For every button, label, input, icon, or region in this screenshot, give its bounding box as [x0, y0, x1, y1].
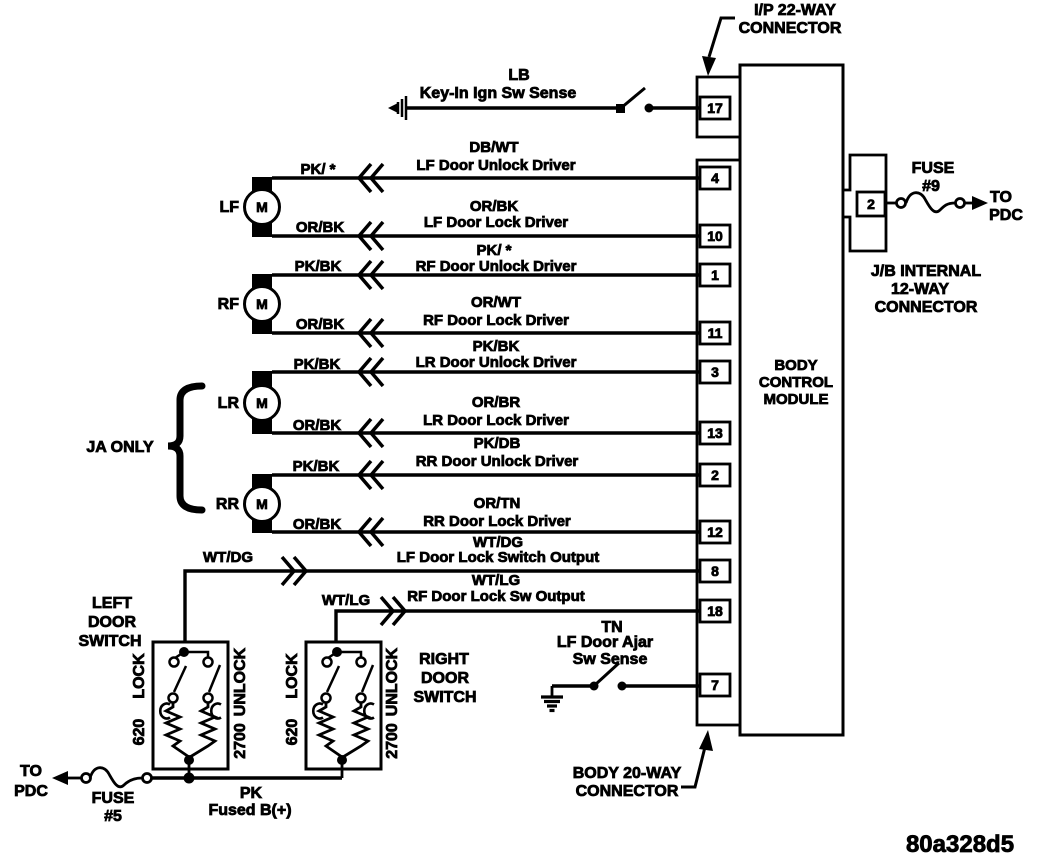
svg-text:PK/BK: PK/BK [294, 356, 341, 373]
svg-text:LR: LR [218, 395, 240, 412]
wire name row9 [397, 534, 600, 566]
svg-text:M: M [256, 199, 268, 215]
svg-text:WT/LG: WT/LG [472, 572, 520, 589]
chevron row 7 [359, 461, 383, 489]
wire name row2 [424, 198, 568, 231]
svg-text:BODY 20-WAY: BODY 20-WAY [573, 765, 682, 782]
chevron row 1 [359, 164, 383, 192]
svg-text:620: 620 [284, 719, 301, 746]
motor M2 RF [245, 274, 280, 334]
svg-text:PK/ *: PK/ * [476, 242, 511, 259]
off-page symbol LB wire [388, 96, 406, 120]
svg-text:JA ONLY: JA ONLY [86, 439, 154, 456]
pin 11 [700, 322, 730, 344]
J/B INTERNAL 12-WAY CONNECTOR label [871, 263, 981, 316]
svg-text:PK/BK: PK/BK [295, 258, 342, 275]
J/B internal connector block [843, 155, 886, 251]
svg-text:PDC: PDC [989, 207, 1023, 224]
motor M1 LF [245, 177, 280, 237]
pin 2 J/B [857, 192, 885, 216]
svg-text:LF: LF [219, 199, 239, 216]
svg-text:CONNECTOR: CONNECTOR [739, 20, 842, 37]
wire row 8 RR lock [272, 530, 700, 533]
pin 1 [700, 264, 730, 286]
wire row 4 RF lock [272, 331, 700, 334]
svg-text:10: 10 [707, 228, 723, 244]
svg-text:TO: TO [990, 189, 1012, 206]
svg-text:BODY: BODY [774, 357, 817, 374]
svg-text:13: 13 [707, 425, 723, 441]
svg-text:Key-In Ign Sw Sense: Key-In Ign Sw Sense [420, 85, 577, 102]
svg-text:J/B INTERNAL: J/B INTERNAL [871, 263, 981, 280]
svg-text:7: 7 [711, 677, 719, 693]
key-in ign switch S1 [616, 88, 700, 113]
svg-text:M: M [256, 395, 268, 411]
wire row 2 LF lock [272, 234, 700, 237]
TN LF Door Ajar Sw Sense label [557, 619, 653, 668]
wire name row7 [416, 435, 579, 470]
svg-text:LF Door Lock Switch Output: LF Door Lock Switch Output [397, 549, 600, 566]
chevron row 10 (right) [381, 597, 405, 625]
svg-text:12: 12 [707, 524, 723, 540]
wire row 9 LF door lock switch output [185, 571, 700, 654]
fuse F5 [52, 768, 152, 787]
LB label [420, 67, 577, 102]
svg-text:80a328d5: 80a328d5 [906, 831, 1014, 858]
pin 18 [700, 600, 730, 622]
wire ground to ajar switch [552, 684, 592, 687]
svg-text:PK/ *: PK/ * [300, 161, 335, 178]
wire row 6 LR lock [272, 431, 700, 434]
svg-text:1: 1 [711, 267, 719, 283]
svg-text:I/P 22-WAY: I/P 22-WAY [754, 2, 836, 19]
svg-text:17: 17 [707, 100, 723, 116]
wire row 1 LF unlock [272, 176, 700, 179]
pin 12 [700, 521, 730, 543]
svg-text:LEFT: LEFT [92, 595, 132, 612]
BODY 20-WAY CONNECTOR label [573, 765, 682, 800]
chevron row 5 [359, 358, 383, 386]
svg-text:OR/WT: OR/WT [471, 294, 521, 311]
RIGHT DOOR SWITCH label [413, 651, 476, 706]
svg-text:TO: TO [20, 763, 42, 780]
svg-text:LF Door Ajar: LF Door Ajar [557, 634, 653, 651]
chevron row 8 [359, 518, 383, 546]
svg-text:LF Door Lock Driver: LF Door Lock Driver [424, 214, 568, 231]
chevron row 6 [359, 419, 383, 447]
svg-text:FUSE: FUSE [92, 790, 135, 807]
pin 17 [700, 97, 730, 119]
I/P 22-way connector block (pin 17) [697, 77, 740, 137]
chevron row 2 [359, 222, 383, 250]
leader arrow to body connector [681, 730, 713, 787]
svg-text:WT/LG: WT/LG [322, 592, 370, 609]
bus junction dot [184, 773, 195, 784]
svg-text:OR/TN: OR/TN [474, 495, 521, 512]
svg-text:WT/DG: WT/DG [203, 549, 253, 566]
pin 10 [700, 225, 730, 247]
svg-text:3: 3 [711, 364, 719, 380]
wire name row6 [423, 394, 569, 429]
svg-text:LF Door Unlock Driver: LF Door Unlock Driver [416, 157, 575, 174]
pin 8 [700, 560, 730, 582]
wire name row8 [423, 495, 571, 530]
PK fused B+ bus wire [151, 776, 342, 779]
wire row 5 LR unlock [272, 370, 700, 373]
pin 2 [700, 464, 730, 486]
wire row 3 RF unlock [272, 273, 700, 276]
svg-text:M: M [256, 296, 268, 312]
svg-text:LR Door Lock Driver: LR Door Lock Driver [423, 412, 569, 429]
right door switch box [306, 642, 381, 769]
chevron row 3 [359, 261, 383, 289]
svg-text:FUSE: FUSE [912, 160, 955, 177]
wire name row4 [423, 294, 569, 329]
svg-text:PK/BK: PK/BK [473, 338, 520, 355]
svg-text:12-WAY: 12-WAY [891, 281, 949, 298]
svg-text:RF Door Lock Sw Output: RF Door Lock Sw Output [407, 588, 585, 605]
svg-text:11: 11 [708, 325, 723, 341]
svg-text:620: 620 [131, 719, 148, 746]
svg-text:2700: 2700 [384, 723, 401, 759]
LEFT DOOR SWITCH label [78, 595, 141, 650]
svg-text:OR/BK: OR/BK [293, 516, 342, 533]
svg-text:OR/BK: OR/BK [296, 316, 345, 333]
TO PDC label bottom left [14, 763, 48, 800]
svg-text:SWITCH: SWITCH [78, 633, 141, 650]
svg-text:2: 2 [711, 467, 719, 483]
svg-text:DB/WT: DB/WT [469, 139, 518, 156]
svg-text:DOOR: DOOR [88, 614, 136, 631]
svg-text:RR: RR [216, 496, 240, 513]
motor M3 LR [245, 371, 280, 434]
svg-text:RR Door Unlock Driver: RR Door Unlock Driver [416, 453, 579, 470]
svg-text:RF: RF [218, 296, 240, 313]
svg-text:8: 8 [711, 563, 719, 579]
chevron row 9 (right) [282, 557, 306, 585]
I/P 22-WAY CONNECTOR label [739, 2, 842, 37]
FUSE #9 label [912, 160, 955, 195]
svg-text:PK/DB: PK/DB [474, 435, 521, 452]
motor M4 RR [245, 474, 280, 533]
svg-text:#9: #9 [922, 178, 940, 195]
svg-text:OR/BK: OR/BK [470, 198, 519, 215]
wire ajar switch to pin 7 [624, 684, 700, 687]
svg-text:Sw Sense: Sw Sense [573, 651, 648, 668]
svg-text:OR/BR: OR/BR [472, 394, 521, 411]
FUSE #5 label [92, 790, 135, 825]
svg-text:PDC: PDC [14, 783, 48, 800]
wire LB key-in to pin 17 [405, 106, 617, 109]
svg-text:4: 4 [711, 170, 719, 186]
svg-text:RIGHT: RIGHT [419, 651, 469, 668]
left door switch internals [160, 647, 221, 778]
fuse F9 [885, 193, 988, 212]
svg-text:RF Door Unlock Driver: RF Door Unlock Driver [416, 258, 577, 275]
svg-text:LOCK: LOCK [284, 653, 301, 699]
svg-text:UNLOCK: UNLOCK [384, 647, 401, 716]
pin 7 [700, 674, 730, 696]
pin 3 [700, 361, 730, 383]
svg-text:CONTROL: CONTROL [759, 374, 833, 391]
svg-text:OR/BK: OR/BK [296, 219, 345, 236]
chevron row 4 [359, 319, 383, 347]
svg-text:2: 2 [867, 196, 875, 212]
TO PDC label top right [989, 189, 1023, 224]
body control module U1 box [740, 65, 843, 735]
svg-text:Fused B(+): Fused B(+) [208, 802, 291, 819]
wire row 7 RR unlock [272, 473, 700, 476]
svg-text:RF Door Lock Driver: RF Door Lock Driver [423, 312, 569, 329]
leader arrow to I/P connector [702, 18, 735, 76]
pin 4 [700, 167, 730, 189]
svg-text:CONNECTOR: CONNECTOR [576, 783, 679, 800]
body control module label [759, 357, 833, 408]
door ajar switch S2 [590, 663, 627, 691]
left door switch box [153, 642, 228, 769]
svg-text:PK: PK [240, 785, 263, 802]
svg-text:SWITCH: SWITCH [413, 689, 476, 706]
svg-text:CONNECTOR: CONNECTOR [875, 299, 978, 316]
svg-text:OR/BK: OR/BK [293, 417, 342, 434]
svg-text:M: M [256, 496, 268, 512]
svg-text:#5: #5 [104, 808, 122, 825]
JA ONLY brace [168, 386, 202, 510]
svg-text:18: 18 [707, 603, 723, 619]
wire name row5 [416, 338, 577, 371]
wire row 10 RF door lock sw output [336, 611, 700, 654]
svg-text:UNLOCK: UNLOCK [232, 647, 249, 716]
wire name row3 [416, 242, 577, 275]
PK Fused B(+) label [208, 785, 291, 819]
svg-text:LOCK: LOCK [131, 653, 148, 699]
svg-text:LR Door Unlock Driver: LR Door Unlock Driver [416, 354, 577, 371]
svg-text:RR Door Lock Driver: RR Door Lock Driver [423, 513, 571, 530]
ground G1 [541, 686, 563, 711]
pin 13 [700, 422, 730, 444]
svg-text:MODULE: MODULE [764, 391, 829, 408]
wire name row1 [416, 139, 575, 174]
body 20-way connector strip [697, 160, 740, 725]
right door switch internals [313, 647, 374, 778]
svg-text:LB: LB [508, 67, 529, 84]
svg-text:2700: 2700 [232, 723, 249, 759]
wire name row10 [407, 572, 585, 605]
svg-text:PK/BK: PK/BK [293, 458, 340, 475]
svg-text:DOOR: DOOR [421, 670, 469, 687]
